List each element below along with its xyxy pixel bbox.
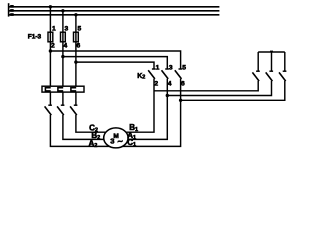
star contactor contact 2 [266, 71, 273, 81]
wire branch A to contactor K2 pin 5 [50, 51, 180, 69]
wire K2 pin 2 down to motor B1 [115, 79, 154, 133]
junction dot branch C on phase 3 [74, 60, 77, 63]
wire branch C to contactor K2 pin 1 [76, 62, 154, 68]
wire K2 pin 4 down to motor A1 [115, 79, 167, 140]
wire contact K1-3 to motor C2 [76, 115, 115, 132]
star point bus bar [258, 51, 285, 53]
svg-text:3: 3 [65, 25, 69, 32]
wire overload to contact K1-3 [75, 92, 77, 105]
overload relay box [42, 86, 84, 92]
junction dot L1 tap [49, 5, 52, 8]
svg-text:1: 1 [52, 25, 56, 32]
svg-text:∼: ∼ [117, 138, 123, 145]
svg-text:6: 6 [77, 43, 81, 50]
wire star bar to contact 1 [257, 52, 259, 71]
svg-text:3: 3 [169, 64, 173, 71]
star contactor contact 3 [279, 71, 286, 81]
fuse F1 [48, 32, 53, 42]
overload heater element 2 [58, 88, 63, 91]
wire contact K1-1 to motor A2 [50, 115, 115, 146]
fuse F2 [61, 32, 66, 42]
contactor K1 contact 3 [70, 105, 77, 115]
junction dot row 2 [166, 94, 169, 97]
junction dot branch A on phase 1 [49, 49, 52, 52]
wire row 1 to star contact 1 [154, 81, 258, 91]
wire overload to contact K1-1 [49, 92, 51, 105]
wire star bar to contact 3 [284, 52, 286, 71]
svg-text:4: 4 [168, 80, 172, 87]
terminal tick L1 [10, 5, 14, 8]
wire overload to contact K1-2 [62, 92, 64, 105]
svg-text:5: 5 [78, 25, 82, 32]
fuse F3 [74, 32, 79, 42]
contactor K2 contact 3 [175, 69, 182, 79]
supply terminal bar [8, 3, 10, 16]
junction dot L3 tap [74, 13, 77, 16]
overload heater element 3 [71, 88, 76, 91]
svg-text:4: 4 [64, 43, 68, 50]
svg-text:1: 1 [156, 64, 160, 71]
star contactor contact 1 [252, 71, 259, 81]
wire contact K1-2 to motor B2 [63, 115, 115, 139]
wire branch B to contactor K2 pin 3 [63, 57, 167, 69]
motor M1 [104, 128, 128, 148]
terminal tick L3 [10, 13, 14, 16]
svg-text:6: 6 [181, 80, 185, 87]
junction dot row 3 [179, 99, 182, 102]
contactor K2 contact 1 [148, 69, 155, 79]
wire L1 drop to fuse F1 [49, 7, 51, 32]
svg-text:5: 5 [182, 64, 186, 71]
wire star bar to contact 2 [271, 52, 273, 71]
svg-text:3: 3 [110, 137, 114, 146]
contactor K1 contact 1 [45, 105, 52, 115]
junction dot branch B on phase 2 [61, 55, 64, 58]
terminal tick L2 [10, 9, 14, 12]
star point stub [270, 51, 273, 52]
wire row 2 to star contact 2 [167, 81, 271, 96]
bus wire L1 [9, 6, 220, 8]
wire K2 pin 6 down to motor C1 [115, 79, 181, 147]
svg-text:2: 2 [154, 80, 158, 87]
wire fuse F2 down to overload box [62, 42, 64, 86]
wire L2 drop to fuse F2 [62, 11, 64, 32]
svg-text:K2: K2 [137, 73, 145, 81]
wire L3 drop to fuse F3 [75, 15, 77, 32]
contactor K1 contact 2 [57, 105, 64, 115]
bus wire L3 [9, 14, 220, 16]
svg-text:2: 2 [51, 43, 55, 50]
bus wire L2 [9, 10, 220, 12]
svg-text:F1-3: F1-3 [28, 34, 42, 41]
wire row 3 to star contact 3 [181, 81, 285, 100]
junction dot L2 tap [61, 9, 64, 12]
wire fuse F1 down to overload box [49, 42, 51, 86]
contactor K2 contact 2 [162, 69, 169, 79]
overload heater element 1 [45, 88, 50, 91]
wire fuse F3 down to overload box [75, 42, 77, 86]
